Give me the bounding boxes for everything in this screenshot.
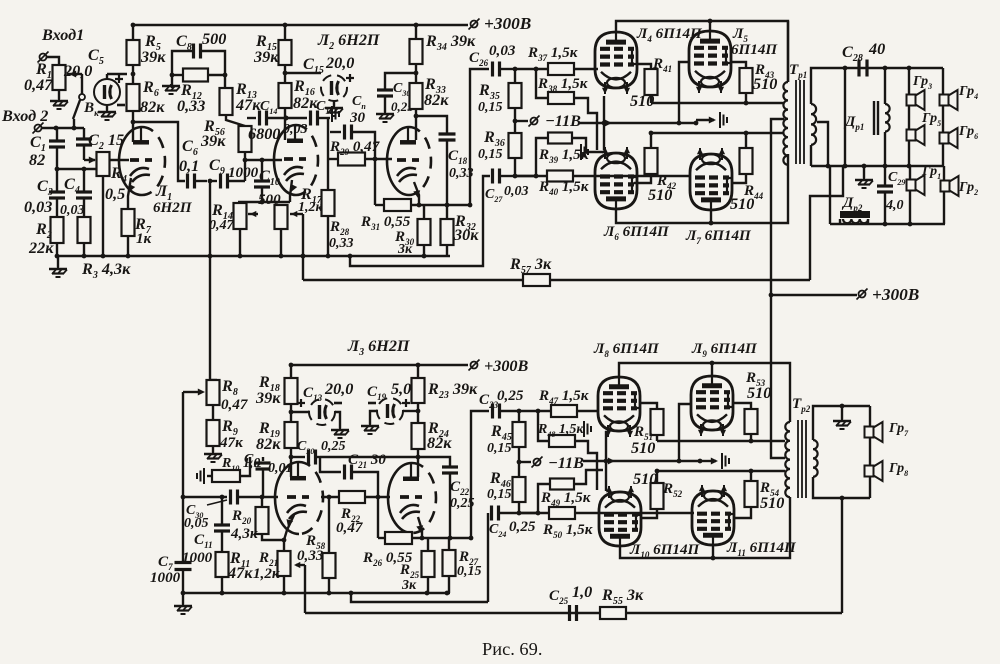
tube L3 right triode [388,463,412,533]
node +300V terminal middle [859,291,866,298]
svg-text:R40 1,5к: R40 1,5к [538,179,589,197]
resistor R4 (potentiometer 0,5) [97,152,110,176]
svg-text:R45: R45 [490,422,512,443]
svg-text:R35: R35 [478,81,500,102]
wire +300V riser to Tr1 center [771,119,784,295]
wire anode bus to +300V node [771,294,857,296]
capacitor C6 0,1 [186,174,189,189]
capacitor C28 40 [857,60,860,77]
svg-text:0,15: 0,15 [487,487,512,502]
capacitor C30a 0,25 [385,73,416,89]
svg-text:+300В: +300В [484,357,529,375]
svg-text:6Н2П: 6Н2П [153,200,193,216]
capacitor C15 20,0 electrolytic [285,72,321,74]
svg-text:4,0: 4,0 [885,198,904,213]
svg-text:510: 510 [760,494,784,512]
svg-text:0,33: 0,33 [329,236,354,251]
resistor R58 0,33 [328,497,330,553]
svg-text:Вк: Вк [83,100,99,118]
capacitor C5 20,0 electrolytic [94,79,120,105]
wire R16 to L2 anode [284,108,286,140]
svg-text:0,33: 0,33 [177,97,205,115]
svg-text:R38 1,5к: R38 1,5к [537,76,588,94]
wire L3left cathode to R21 [284,515,294,551]
svg-text:Гр5: Гр5 [921,111,941,128]
capacitor C17b 30 to grid [330,131,341,133]
ground on Tr2 secondary [841,406,843,419]
wire R1 wiper [67,73,82,75]
svg-text:Вход 2: Вход 2 [1,107,48,125]
svg-text:47к: 47к [219,435,243,451]
svg-text:0,15: 0,15 [478,100,503,115]
tube L8 6P14P [598,377,640,431]
resistor R18 39k [289,363,294,368]
ground below R9 [212,446,214,452]
wire anode row to C22 [320,456,418,458]
svg-text:C25: C25 [549,588,569,606]
wire bottom feedback line [305,612,842,614]
svg-text:0,25: 0,25 [497,388,524,404]
wire Tr1 secondary top out [811,68,843,104]
svg-text:82: 82 [29,151,45,169]
wire R56 bottom [244,152,246,181]
resistor R40 1,5k [515,175,547,177]
svg-text:510: 510 [747,384,771,402]
svg-text:C18: C18 [448,148,468,166]
svg-text:R2: R2 [35,220,52,241]
capacitor C2 15 [83,128,85,139]
wire grid node [57,168,97,170]
svg-text:C21 30: C21 30 [348,452,386,470]
svg-text:C3: C3 [37,177,53,198]
wire top-half cathode bus [57,255,450,257]
resistor R47 1,5k [536,409,541,414]
speaker Gr1 [909,166,911,224]
tube L2 left triode [274,125,296,195]
speaker Gr3 [908,68,910,166]
svg-text:510: 510 [630,92,654,110]
svg-text:1000: 1000 [182,550,213,566]
wire -11V bias row bottom [583,460,700,462]
wire R18-R19 junction [290,404,292,422]
wire R6 to anode [132,111,134,142]
svg-text:R20: R20 [231,508,252,526]
svg-text:Гр6: Гр6 [958,124,978,141]
svg-text:4,3к: 4,3к [230,526,258,542]
capacitor C13 20,0 electrolytic [291,411,309,413]
resistor R11 47k [216,552,229,577]
svg-text:Л4 6П14П: Л4 6П14П [636,26,703,44]
resistor R5 39k [132,25,134,40]
svg-text:30: 30 [349,110,366,126]
resistor R39 1,5k [513,174,518,179]
wire cathode row L3right [378,537,385,539]
svg-text:47к: 47к [235,96,261,114]
wire L6 cathode to bias [602,121,607,126]
transformer Tr2 primary winding [785,422,790,497]
wire L2left cathode [290,180,292,202]
svg-text:82к: 82к [256,435,281,453]
svg-text:6П14П: 6П14П [731,42,778,58]
svg-text:C24: C24 [489,522,506,539]
capacitor C22 0,25 [418,457,450,466]
tube L1 6N2P triode [119,127,142,195]
svg-text:Гр4: Гр4 [958,84,978,101]
resistor R21 1,2k [278,551,291,576]
svg-text:0,47: 0,47 [24,76,53,94]
svg-text:Л7 6П14П: Л7 6П14П [685,228,752,246]
resistor R17 potentiometer 1,2k [275,205,288,229]
wire R4 to L1 grid [109,159,129,161]
capacitor C11 1000 [220,495,225,500]
resistor R55 3k [600,607,626,619]
tube L11 6P14P [692,491,734,545]
svg-text:0,15: 0,15 [487,441,512,456]
wire feedback vertical left [182,392,184,562]
wire anode bus L8 L9 [619,363,790,422]
svg-text:R6: R6 [142,78,159,99]
resistor R8 potentiometer 0,47 [207,380,220,405]
wire anode bus L10 L11 bottom [620,497,790,558]
svg-text:R37 1,5к: R37 1,5к [527,45,578,63]
resistor R44 510 [745,133,747,148]
svg-text:C11: C11 [194,532,213,550]
svg-text:+300В: +300В [872,285,919,304]
resistor R26 0,55 [385,532,412,544]
resistor R19 82k [285,422,298,448]
capacitor C20 0,25 [291,456,305,458]
resistor R51 510 [640,403,657,409]
resistor R52 510 [656,471,658,483]
svg-text:−11В: −11В [545,112,581,130]
wire C28 bypass branch [844,68,846,166]
svg-text:22к: 22к [28,239,54,257]
svg-text:Вход1: Вход1 [41,26,84,44]
resistor R25 3k [427,538,429,551]
ground bottom left [182,604,184,606]
svg-text:C30: C30 [393,81,410,98]
tube L4 6P14P [595,32,637,88]
svg-text:C12: C12 [244,452,261,469]
wire L4 cathode to bias [603,96,605,150]
svg-text:Рис. 69.: Рис. 69. [482,639,542,659]
wire cathode bias row [375,204,384,206]
capacitor C10 500 [260,158,265,163]
svg-text:−11В: −11В [548,454,584,472]
wire +300V riser to Tr2 center [771,295,785,458]
svg-text:Л11 6П14П: Л11 6П14П [726,540,797,558]
wire screen bus upper to Tr2 [657,440,785,442]
resistor R27 0,15 [448,538,450,550]
tube L3 left triode [275,462,299,534]
resistor R9 47k [212,405,214,420]
resistor R22 0,47 [339,491,365,503]
resistor R34 39k [415,25,417,39]
capacitor C24 0,25 [487,513,489,602]
wire output top bus [843,67,943,69]
wire +300V top bus [131,24,468,26]
resistor R42 510 [650,133,652,148]
wire junction down to bottom channel [209,181,211,380]
wire C20 to C21 [320,457,341,472]
capacitor C23 0,25 [471,411,489,538]
svg-text:Др1: Др1 [843,114,864,132]
svg-text:Л6 6П14П: Л6 6П14П [603,224,670,242]
svg-text:0,05: 0,05 [184,516,209,531]
wire output to feedback [841,498,843,613]
resistor R49 1,5k [517,511,522,516]
svg-text:0,15: 0,15 [457,564,482,579]
tube L9 6P14P [691,376,733,430]
speaker Gr6 [940,133,949,144]
svg-text:0,03: 0,03 [283,122,308,137]
wire feedback R57 line [303,279,810,281]
svg-text:1,2к: 1,2к [253,566,280,582]
screen bypass mark top [696,119,714,121]
svg-text:47к: 47к [227,564,253,582]
wire Tr1 secondary bottom tap [817,122,828,166]
capacitor C25 1,0 [568,605,571,621]
resistor R2 22k [51,217,64,243]
resistor R24 82k [412,423,425,449]
speaker Gr5 [907,130,916,141]
resistor R30 3k [423,205,425,219]
svg-text:C26: C26 [469,50,489,68]
resistor R48 1,5k [538,411,549,441]
svg-text:C28: C28 [842,43,863,64]
capacitor C8 500 [172,51,192,88]
node -11V tap bottom [518,447,520,477]
resistor R53 510 [733,403,751,409]
wire lower output mesh left [829,166,831,224]
transformer Tr2 core [798,420,806,498]
choke Dr2 [840,211,870,218]
wire R5-R6 junction [132,65,134,84]
svg-text:C23: C23 [479,392,499,410]
svg-text:C27: C27 [485,187,503,204]
svg-text:500: 500 [202,30,226,48]
wire R56 to L2 grid [245,159,262,161]
svg-text:1000: 1000 [228,165,259,181]
ground below R1 [58,90,60,99]
wire Tr2 secondary top out [813,406,870,440]
resistor R32 30k [446,205,448,219]
capacitor C27 0,03 [491,169,494,184]
resistor R6 82k [127,84,140,111]
ground on output bus [863,166,865,178]
capacitor C12 0,01 [262,457,264,461]
svg-text:3к: 3к [401,578,417,593]
wire R19 to anode node [290,448,292,477]
wire R34-R33 junction [415,64,417,83]
svg-text:R52: R52 [662,481,683,499]
svg-text:C13: C13 [303,385,323,403]
speaker Gr4 [942,68,944,166]
svg-text:82к: 82к [140,98,165,116]
resistor R29 0,47 [327,132,329,159]
wire R17 wiper down [302,214,304,280]
switch Vk [81,74,83,94]
resistor R41 510 [637,64,651,69]
capacitor C18 0,33 [439,132,456,135]
capacitor C17 30 [284,116,289,121]
svg-text:R48 1,5к: R48 1,5к [537,422,584,439]
capacitor C7 1000 [175,561,192,564]
transformer Tr1 secondary winding [811,104,816,145]
svg-text:510: 510 [753,75,777,93]
svg-text:6800: 6800 [248,125,280,143]
resistor R33 82k [410,83,423,109]
wire R23-R24 junction [417,403,419,423]
resistor R12 0,33 [183,69,208,82]
svg-text:R50 1,5к: R50 1,5к [542,522,593,540]
resistor R54 510 [750,471,752,481]
capacitor C29 4,0 [884,166,886,185]
wire lower return bus [351,593,488,602]
wire L3right cathode [418,517,422,538]
svg-text:0,1: 0,1 [179,157,199,175]
svg-text:R29 0,47: R29 0,47 [329,139,381,157]
svg-text:5,0: 5,0 [391,380,411,398]
svg-text:C20: C20 [297,439,314,456]
wire R4 bottom down [102,176,104,256]
resistor R35 0,15 [513,67,518,72]
resistor R43 510 [731,62,746,68]
svg-text:R57 3к: R57 3к [509,255,552,276]
capacitor C14 0,03 [247,117,256,119]
wire L8 L10 bias verticals [605,431,607,491]
wire cathode row L2left [238,201,290,203]
speaker Gr7 [869,406,871,498]
svg-text:Гр3: Гр3 [912,74,932,91]
capacitor C1 82 [56,128,58,141]
resistor R56 39k [239,126,252,152]
resistor R46 0,15 [513,477,526,502]
wire grid bus bottom half [183,496,227,498]
tube L6 6P14P [595,153,637,209]
svg-text:39к: 39к [253,48,279,66]
svg-text:0,03: 0,03 [489,43,516,59]
wire bottom-half cathode bus [183,592,450,594]
resistor R28 0,33 [322,190,335,216]
svg-text:Тр2: Тр2 [792,396,811,414]
svg-text:Гр2: Гр2 [958,180,978,197]
transformer Tr1 primary winding [787,21,789,82]
svg-text:82к: 82к [424,91,449,109]
wire R13 to R56 [226,115,245,126]
svg-text:C4: C4 [64,175,80,196]
svg-text:1,0: 1,0 [572,583,592,601]
svg-text:Л3 6Н2П: Л3 6Н2П [347,337,410,358]
svg-text:R8: R8 [221,377,238,398]
svg-text:C2 15: C2 15 [88,131,124,152]
svg-text:Сп: Сп [352,94,366,111]
tube L7 6P14P [690,154,732,210]
ground below top-half bus [57,256,59,267]
resistor R31 0,55 [384,199,411,211]
svg-text:39к: 39к [200,132,226,150]
svg-text:R36: R36 [483,128,505,149]
svg-text:Тр1: Тр1 [789,62,807,80]
resistor R23 39k [416,363,421,368]
node -11V tap top [514,108,516,133]
node +300V terminal top [471,21,478,28]
svg-text:C29: C29 [888,170,905,187]
svg-text:0,25: 0,25 [321,439,346,454]
svg-text:R3 4,3к: R3 4,3к [81,260,131,281]
svg-text:510: 510 [633,470,657,488]
svg-text:0,15: 0,15 [478,147,503,162]
capacitor C9 [210,180,217,182]
svg-text:20,0: 20,0 [324,380,353,398]
wire screen bus lower to Tr1 [651,132,782,134]
chassis mark right of C17 [331,106,333,122]
svg-text:C6: C6 [182,137,198,158]
svg-text:82к: 82к [427,434,452,452]
svg-text:510: 510 [648,186,672,204]
resistor R57 3k [523,274,550,286]
resistor R13 47k [220,88,233,115]
svg-text:R49 1,5к: R49 1,5к [540,490,591,508]
svg-text:39к: 39к [255,389,281,407]
capacitor C4 0,03 [83,169,85,191]
capacitor C26 0,03 [470,69,489,205]
wire Tr2 secondary bottom out [813,477,870,498]
resistor R45 0,15 [517,409,522,414]
capacitor C30b 0,05 [229,490,232,505]
svg-text:1к: 1к [136,231,152,247]
svg-text:1000: 1000 [150,570,181,586]
svg-text:R47 1,5к: R47 1,5к [538,388,589,406]
svg-text:0,25: 0,25 [509,519,536,535]
transformer Tr2 secondary winding [813,440,818,477]
screen bypass mark bottom [700,460,716,462]
svg-text:C15: C15 [303,55,324,76]
resistor R36 0,15 [509,133,522,158]
svg-text:3к: 3к [397,242,413,257]
svg-text:82к: 82к [293,94,318,112]
svg-text:39к: 39к [140,48,166,66]
svg-text:Л2 6Н2П: Л2 6Н2П [317,31,380,52]
wire R24 to anode [417,449,419,477]
wire R15-R16 junction [284,65,286,83]
wire screen bus lower to Tr2 [657,470,785,472]
wire screen bus upper to Tr1 [651,102,782,104]
speaker Gr8 [865,466,874,477]
svg-text:R55 3к: R55 3к [601,586,644,607]
svg-text:0,5: 0,5 [105,185,125,203]
svg-text:0,47: 0,47 [209,218,235,233]
svg-text:C9: C9 [209,156,225,177]
wire L2right cathode [414,182,419,205]
resistor R16 82k [279,83,292,108]
svg-text:20,0: 20,0 [63,62,92,80]
transformer Tr1 taps [782,102,784,104]
choke Dr1 [884,68,886,104]
wire anode to C6 [133,122,185,181]
svg-text:510: 510 [631,439,655,457]
resistor R7 1k [122,209,135,236]
svg-text:0,47: 0,47 [221,397,249,413]
resistor R10 1,0 [203,468,205,484]
wire input1 to R1 [47,57,59,65]
wire output bottom bus [811,165,943,167]
resistor R38 1,5k [536,69,548,98]
capacitor C21 30 [343,465,346,480]
wire R33 to anode and C18 [415,109,417,140]
svg-text:Л8 6П14П: Л8 6П14П [593,341,660,359]
transformer Tr1 core [796,80,804,164]
